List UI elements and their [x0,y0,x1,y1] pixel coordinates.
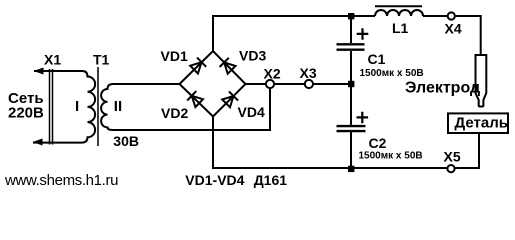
diode VD1 [190,58,206,74]
connector X4 [448,12,455,19]
transformer T1 primary winding [33,71,95,143]
svg-text:X1: X1 [44,51,61,67]
junction dot bottom [348,166,354,172]
junction dot mid [348,81,354,87]
svg-text:www.shems.h1.ru: www.shems.h1.ru [4,172,118,189]
svg-text:X5: X5 [444,149,461,165]
svg-text:X3: X3 [300,65,317,81]
diode VD3 [220,58,236,74]
inductor L1 [375,10,423,16]
wire X2 to X3 [275,83,305,85]
svg-text:I: I [75,98,79,115]
C2 plus sign [357,112,369,124]
connector X5 [447,165,454,172]
wire C2 branch [350,84,352,168]
wire X3 to C-midpoint [313,83,351,85]
svg-text:X2: X2 [264,66,281,82]
svg-text:30В: 30В [113,133,139,149]
connector X1 double line [50,69,53,145]
diode bridge edges [180,51,246,117]
capacitor C1 [337,44,365,49]
svg-text:Электрод: Электрод [405,80,480,97]
svg-text:C2: C2 [369,135,387,151]
svg-text:1500мк х 50В: 1500мк х 50В [360,68,424,79]
svg-text:X4: X4 [445,21,462,37]
transformer T1 secondary winding [101,84,179,130]
connector X2 [266,80,274,88]
workpiece box Деталь [448,113,508,133]
svg-text:II: II [114,98,122,115]
diode VD4 [222,91,238,107]
svg-text:VD2: VD2 [161,105,188,121]
X1 arrow top [34,68,44,75]
svg-text:Д161: Д161 [254,172,288,188]
svg-text:VD4: VD4 [238,104,265,120]
wire top rail [213,16,481,54]
svg-text:1500мк х 50В: 1500мк х 50В [359,151,423,162]
transformer core [97,67,99,146]
svg-text:Деталь: Деталь [455,114,508,131]
wire X2 down to secondary return [113,88,270,130]
X1 arrow bottom [33,139,43,146]
svg-text:L1: L1 [392,20,409,36]
svg-text:VD1: VD1 [161,48,188,64]
svg-text:VD3: VD3 [239,48,266,64]
wire right vertex to X2 [246,83,266,85]
svg-text:VD1-VD4: VD1-VD4 [185,172,244,188]
junction dot top [348,13,354,19]
electrode body [476,55,487,107]
capacitor C2 [337,126,366,131]
wire bridge AC left [113,83,180,85]
svg-text:C1: C1 [368,51,386,67]
diode VD2 [187,91,203,107]
svg-text:220В: 220В [8,104,44,121]
svg-text:T1: T1 [93,51,110,67]
C1 plus sign [357,28,369,40]
connector X3 [305,80,313,88]
wire C1 branch [350,16,352,84]
wire bottom rail [213,117,479,169]
L1 core bar [375,5,422,7]
